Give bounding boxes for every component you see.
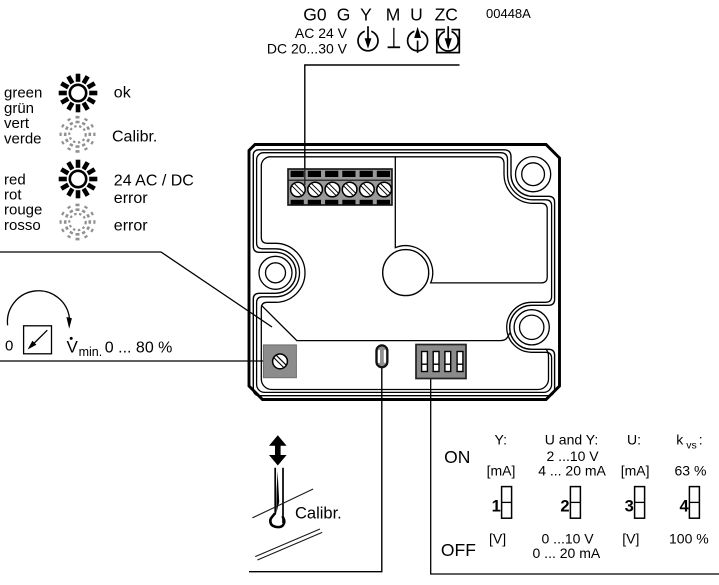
svg-text:63 %: 63 % (675, 463, 707, 479)
svg-text:min.: min. (79, 345, 103, 359)
svg-text:[mA]: [mA] (487, 463, 516, 479)
svg-text:[V]: [V] (622, 530, 639, 546)
svg-text:ZC: ZC (435, 5, 458, 25)
svg-text:24 AC / DC: 24 AC / DC (114, 173, 194, 190)
svg-text:M: M (386, 5, 401, 25)
svg-text:k: k (676, 431, 684, 447)
svg-text:U and Y:: U and Y: (545, 431, 598, 447)
svg-text:00448A: 00448A (486, 6, 531, 21)
svg-text:Y: Y (360, 5, 372, 25)
svg-text:verde: verde (4, 130, 42, 147)
svg-text:1: 1 (492, 498, 501, 516)
svg-text:2 ...10 V: 2 ...10 V (547, 448, 600, 464)
svg-text:vs: vs (686, 439, 697, 451)
svg-text:G0: G0 (303, 5, 327, 25)
svg-text:ON: ON (444, 447, 470, 467)
svg-text:4 ... 20 mA: 4 ... 20 mA (538, 463, 606, 479)
svg-text:0 ... 80 %: 0 ... 80 % (105, 340, 173, 357)
svg-text:Calibr.: Calibr. (295, 505, 342, 523)
svg-text:AC 24 V: AC 24 V (295, 25, 348, 41)
svg-text:rosso: rosso (4, 217, 41, 234)
svg-text::: : (699, 431, 703, 447)
svg-text:DC 20...30 V: DC 20...30 V (267, 40, 348, 56)
svg-text:0 ...10 V: 0 ...10 V (542, 530, 595, 546)
svg-text:G: G (337, 5, 351, 25)
svg-text:[mA]: [mA] (621, 463, 650, 479)
svg-text:0 ... 20 mA: 0 ... 20 mA (533, 545, 601, 561)
svg-text:error: error (114, 190, 148, 207)
svg-text:100 %: 100 % (669, 530, 709, 546)
svg-text:error: error (114, 218, 148, 235)
svg-text:Y:: Y: (495, 431, 507, 447)
svg-text:3: 3 (625, 498, 634, 516)
svg-text:OFF: OFF (441, 540, 476, 560)
svg-text:V: V (67, 337, 79, 356)
svg-text:ok: ok (114, 85, 132, 102)
svg-text:U: U (410, 5, 423, 25)
svg-text:4: 4 (680, 498, 690, 516)
svg-text:2: 2 (560, 498, 569, 516)
svg-text:Calibr.: Calibr. (112, 128, 157, 145)
svg-text:U:: U: (627, 431, 641, 447)
svg-text:0: 0 (5, 338, 13, 355)
svg-text:[V]: [V] (489, 530, 506, 546)
